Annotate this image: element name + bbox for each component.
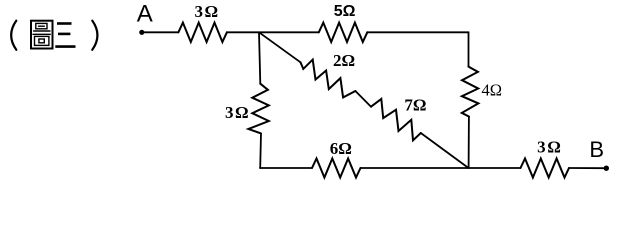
svg-text:A: A — [137, 0, 153, 27]
resistor R2 5ohm top — [319, 23, 368, 42]
wire R8 to terminal B — [569, 167, 606, 169]
svg-text:6Ω: 6Ω — [330, 139, 352, 158]
svg-text:5Ω: 5Ω — [334, 3, 356, 20]
wire right vertical lower to node J2 — [468, 117, 470, 169]
wire diagonal J1 to R5 — [259, 32, 301, 62]
svg-text:3Ω: 3Ω — [537, 137, 561, 156]
svg-text:2Ω: 2Ω — [333, 51, 355, 70]
svg-text:3Ω: 3Ω — [194, 2, 218, 21]
wire R6 to node J2 diagonal — [421, 133, 469, 168]
terminal A dot — [139, 30, 144, 35]
terminal B dot — [604, 166, 609, 171]
wire R5 to R6 diagonal — [355, 91, 371, 107]
wire R2 to top-right corner — [367, 31, 468, 33]
wire right vertical upper — [468, 32, 470, 66]
resistor R4 4ohm right vertical — [462, 67, 479, 117]
caption right paren — [92, 21, 97, 50]
wire left vertical lower to bottom-left corner — [259, 133, 262, 168]
caption left paren — [11, 21, 16, 50]
wire R7 through node J2 to R8 — [361, 167, 521, 169]
resistor R8 3ohm bottom-right — [521, 159, 570, 178]
svg-text:3Ω: 3Ω — [225, 103, 249, 122]
resistor R1 3ohm top-left — [178, 23, 227, 42]
resistor R6 7ohm diagonal — [371, 99, 421, 140]
wire R1 to R2 through node J1 — [227, 31, 319, 33]
resistor R3 3ohm left vertical — [248, 84, 268, 134]
svg-text:4Ω: 4Ω — [482, 80, 503, 99]
svg-text:B: B — [589, 137, 604, 162]
caption glyph 三 (three) — [55, 24, 75, 47]
resistor R5 2ohm diagonal — [301, 60, 356, 98]
wire bottom-left corner to R7 — [260, 167, 312, 169]
wire left vertical upper from node J1 — [259, 32, 260, 83]
resistor R7 6ohm bottom — [312, 159, 361, 178]
wire A to R1 — [142, 31, 179, 33]
svg-text:7Ω: 7Ω — [404, 96, 426, 115]
caption glyph 圖 (figure) — [31, 21, 53, 49]
